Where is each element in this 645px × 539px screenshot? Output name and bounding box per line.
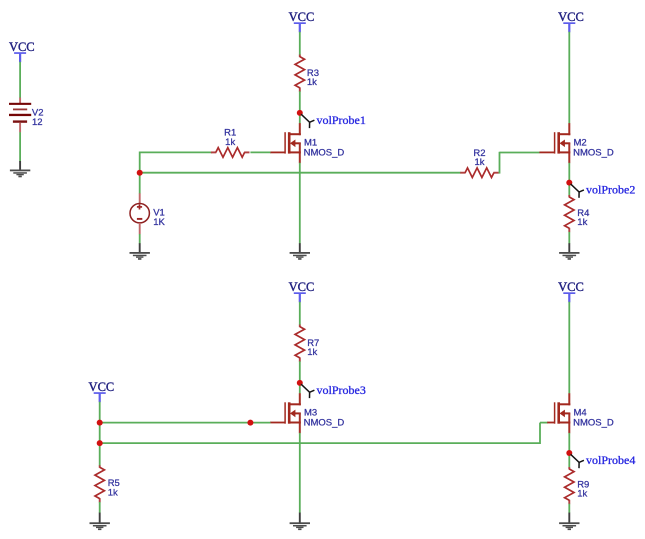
power symbol VCC (M2 column) xyxy=(558,10,584,32)
ground (M1 source) xyxy=(290,243,310,260)
junction node volProbe1 xyxy=(297,110,303,116)
resistor R2 1k xyxy=(460,148,499,178)
junction node V1 top xyxy=(137,170,143,176)
wire VCC to R3 xyxy=(299,32,301,56)
svg-text:1k: 1k xyxy=(307,77,317,88)
voltage probe volProbe1 xyxy=(301,113,366,128)
svg-text:1k: 1k xyxy=(577,488,587,499)
svg-text:volProbe2: volProbe2 xyxy=(586,183,635,197)
wire M1 source down to ground xyxy=(299,163,301,244)
resistor R5 1k xyxy=(95,465,120,502)
voltage probe volProbe3 xyxy=(301,383,366,398)
power symbol VCC (M4 column) xyxy=(558,280,584,302)
ground (V1) xyxy=(130,243,150,260)
svg-text:1k: 1k xyxy=(225,137,235,148)
junction node volProbe4 xyxy=(566,450,572,456)
svg-text:1k: 1k xyxy=(474,157,484,168)
svg-text:NMOS_D: NMOS_D xyxy=(304,418,345,429)
wire R7 to node volProbe3 xyxy=(299,361,301,383)
svg-text:1k: 1k xyxy=(577,217,587,228)
wire gate net vertical at x=139.7 xyxy=(139,152,141,173)
wire R2 to M2 gate xyxy=(500,152,540,154)
transistor M1 NMOS_D xyxy=(270,123,344,163)
junction on M3 gate wire xyxy=(247,420,253,426)
voltage probe volProbe4 xyxy=(571,453,636,468)
ground (R9) xyxy=(559,513,579,531)
junction node volProbe3 xyxy=(297,380,303,386)
voltage probe volProbe2 xyxy=(571,183,636,198)
wire VCC to battery V2 xyxy=(19,62,21,98)
svg-text:VCC: VCC xyxy=(289,10,315,24)
wire R5 to ground xyxy=(99,502,101,513)
ground (R5) xyxy=(90,513,110,531)
resistor R4 1k xyxy=(565,195,590,232)
wire M4 gate net vertical xyxy=(539,423,541,444)
wire VCC to M4 drain xyxy=(568,302,570,394)
ground (R4) xyxy=(559,243,579,260)
wire R9 to ground xyxy=(568,504,570,513)
wire node volProbe3 to M3 drain xyxy=(299,383,301,394)
wire M2 source to node volProbe2 xyxy=(568,163,570,183)
voltage source V1 1K xyxy=(130,193,165,234)
svg-text:VCC: VCC xyxy=(89,380,115,394)
wire gate net to R1 xyxy=(140,151,212,153)
wire rail long to M4 gate net xyxy=(100,442,540,444)
transistor M3 NMOS_D xyxy=(270,393,344,433)
svg-text:1K: 1K xyxy=(153,217,165,228)
wire R3 to node volProbe1 xyxy=(299,91,301,113)
svg-text:VCC: VCC xyxy=(289,280,315,294)
wire rail to M3 gate xyxy=(100,422,271,424)
resistor R3 1k xyxy=(295,55,319,92)
resistor R1 1k xyxy=(211,128,250,158)
junction node rail-gate wire xyxy=(97,420,103,426)
wire M3 source down to ground xyxy=(299,433,301,513)
svg-text:VCC: VCC xyxy=(9,40,35,54)
wire node to V1 xyxy=(139,173,141,194)
wire V1 to ground xyxy=(139,234,141,244)
resistor R7 1k xyxy=(295,325,319,362)
wire R4 to ground xyxy=(568,232,570,244)
wire R2 up segment xyxy=(499,152,501,174)
wire battery V2 to ground xyxy=(19,132,21,161)
svg-text:VCC: VCC xyxy=(558,280,584,294)
svg-text:volProbe3: volProbe3 xyxy=(317,383,366,397)
transistor M2 NMOS_D xyxy=(539,123,613,163)
svg-text:NMOS_D: NMOS_D xyxy=(573,147,614,158)
transistor M4 NMOS_D xyxy=(547,393,614,433)
wire node V1 to R2 xyxy=(140,172,461,174)
ground (battery branch) xyxy=(10,161,30,177)
wire M4 source to node volProbe4 xyxy=(568,433,570,454)
junction node rail-long wire xyxy=(97,440,103,446)
svg-text:NMOS_D: NMOS_D xyxy=(573,418,614,429)
svg-text:1k: 1k xyxy=(108,487,118,498)
battery V2 12V xyxy=(9,98,44,133)
power symbol VCC (R5 branch) xyxy=(89,380,115,402)
svg-text:NMOS_D: NMOS_D xyxy=(304,147,345,158)
wire VCC to M2 drain xyxy=(568,32,570,124)
wire M4 gate net horizontal xyxy=(540,422,548,424)
wire VCC to R7 xyxy=(299,302,301,325)
svg-text:1k: 1k xyxy=(307,347,317,358)
wire node volProbe2 to R4 xyxy=(568,183,570,196)
svg-text:VCC: VCC xyxy=(558,10,584,24)
power symbol VCC (R3 column) xyxy=(289,10,315,32)
ground (M3 source) xyxy=(290,513,310,531)
wire node volProbe1 to M1 drain xyxy=(299,113,301,124)
power symbol VCC (R7 column) xyxy=(289,280,315,302)
svg-text:12: 12 xyxy=(32,117,43,128)
svg-text:volProbe4: volProbe4 xyxy=(586,453,635,467)
power symbol VCC (battery branch) xyxy=(9,40,35,62)
resistor R9 1k xyxy=(565,467,590,504)
wire R1 to M1 gate xyxy=(250,151,270,153)
svg-text:volProbe1: volProbe1 xyxy=(317,113,366,127)
wire node volProbe4 to R9 xyxy=(568,453,570,467)
wire VCC rail down to R5 xyxy=(99,402,101,466)
junction node volProbe2 xyxy=(566,180,572,186)
